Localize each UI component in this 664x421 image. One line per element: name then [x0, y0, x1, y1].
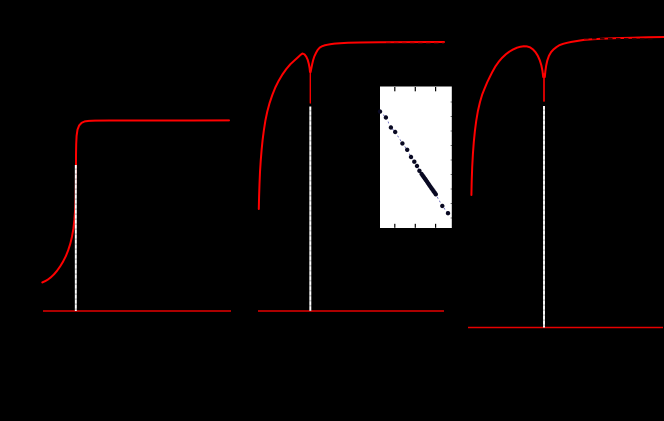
- inset top axis ticks: [394, 87, 396, 91]
- right panel red curve left arch: [471, 46, 543, 195]
- left panel red transmission curve: [42, 120, 229, 282]
- inset white background: [380, 87, 452, 229]
- middle panel red curve right branch: [311, 42, 444, 72]
- middle panel red dip needle: [309, 70, 311, 103]
- right panel baseline (red axis): [468, 327, 663, 329]
- right panel dark dashed asymptote overlapping plateau: [584, 38, 656, 40]
- middle panel red curve left arch: [259, 54, 310, 210]
- middle panel white dashed marker line: [309, 107, 311, 312]
- right panel red dip needle: [543, 74, 545, 101]
- right panel white dashed marker line: [543, 106, 545, 328]
- left panel baseline (red axis): [43, 310, 231, 312]
- inset right axis minor ticks: [451, 101, 452, 103]
- inset navy scatter data points: [378, 109, 382, 113]
- right panel red curve right branch: [545, 37, 664, 77]
- middle panel baseline (red axis): [258, 310, 444, 312]
- inset blue dashed fit line: [380, 112, 448, 214]
- left panel white dashed marker line: [75, 165, 77, 311]
- inset bottom axis ticks: [394, 224, 396, 228]
- middle panel dark dashed asymptote overlapping plateau: [386, 42, 444, 44]
